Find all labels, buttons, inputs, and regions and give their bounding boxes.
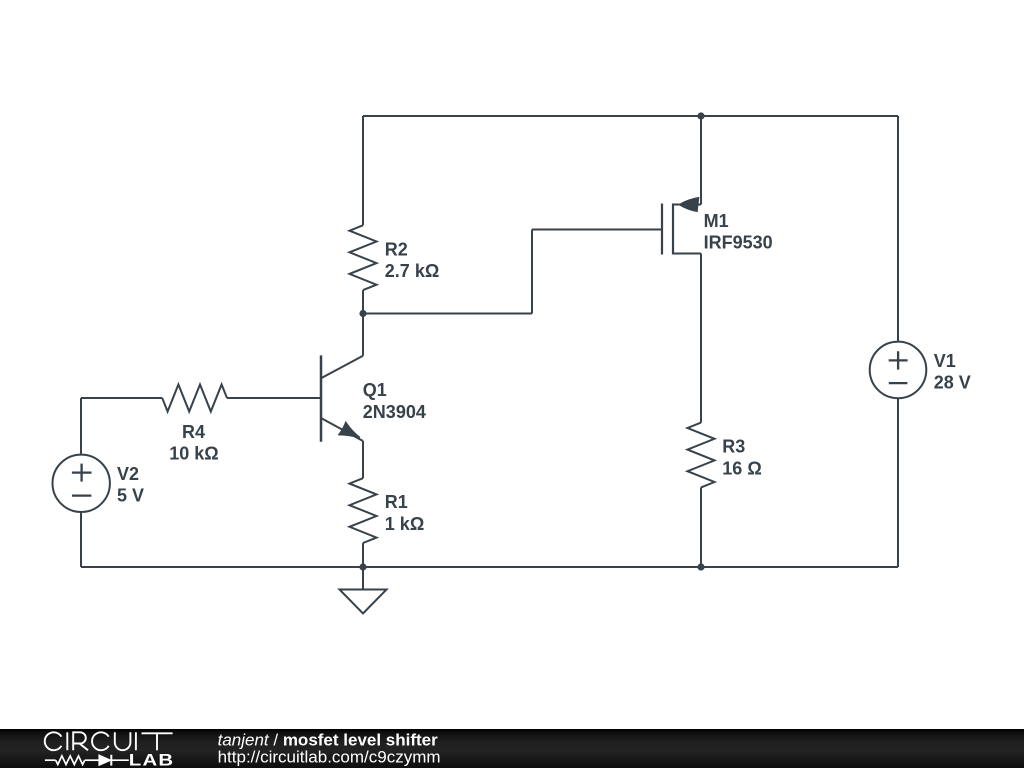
wire R2 bottom lead to collector node — [362, 290, 364, 313]
svg-text:IRF9530: IRF9530 — [704, 233, 773, 253]
wire ground stem — [362, 567, 364, 590]
wire gate net to M1 gate bar — [532, 229, 661, 231]
wire bottom ground rail — [81, 566, 898, 568]
wire gate net horizontal from collector node — [363, 313, 532, 315]
svg-text:R1: R1 — [385, 492, 408, 512]
wire R4 right lead to Q1 base — [227, 397, 320, 399]
resistor R2 zigzag — [350, 225, 377, 290]
node junction dot ground rail at R1 column — [359, 563, 366, 570]
svg-text:2.7 kΩ: 2.7 kΩ — [385, 261, 439, 281]
svg-text:R4: R4 — [182, 422, 205, 442]
svg-text:V1: V1 — [934, 351, 956, 371]
wire left branch top: V2 positive terminal up to R4 row — [80, 398, 82, 455]
wire R2 top lead from top rail — [362, 116, 364, 225]
svg-text:M1: M1 — [704, 211, 729, 231]
wire R1 bottom lead to ground rail — [362, 543, 364, 567]
svg-text:http://circuitlab.com/c9czymm: http://circuitlab.com/c9czymm — [218, 747, 441, 766]
svg-text:LAB: LAB — [129, 750, 175, 768]
voltage source V1 28 V — [870, 342, 927, 399]
wire V2 to R4 left lead — [81, 397, 162, 399]
svg-text:1 kΩ: 1 kΩ — [385, 514, 424, 534]
footer bar background — [0, 729, 1024, 768]
svg-text:2N3904: 2N3904 — [363, 402, 426, 422]
svg-text:R2: R2 — [385, 240, 408, 260]
wire top rail from R2 branch to V1 branch — [363, 115, 898, 117]
transistor Q1 2N3904 NPN — [321, 355, 363, 441]
svg-text:10 kΩ: 10 kΩ — [169, 444, 218, 464]
CircuitLab logo resistor-diode glyph — [45, 755, 129, 766]
mosfet M1 IRF9530 PMOS — [662, 198, 701, 255]
wire Q1 collector vertical — [362, 314, 364, 356]
node junction dot R2 bottom / gate net / collector — [359, 310, 366, 317]
wire M1 drain lead down to R3 — [700, 254, 702, 423]
node junction dot top rail at M1 column — [697, 112, 704, 119]
node junction dot ground rail at R3 column — [697, 563, 704, 570]
wire right branch bottom: V1 negative terminal down to bottom rail — [897, 398, 899, 567]
wire Q1 emitter vertical to R1 — [362, 441, 364, 478]
svg-text:16 Ω: 16 Ω — [722, 459, 761, 479]
wire left branch bottom: V2 negative terminal down to bottom rail — [80, 512, 82, 567]
CircuitLab logo CIRCUIT wordmark — [45, 732, 173, 750]
resistor R3 zigzag — [688, 423, 715, 488]
ground symbol — [340, 590, 387, 614]
wire R3 bottom lead to ground rail — [700, 487, 702, 567]
wire right branch top: top rail down to V1 positive terminal — [897, 116, 899, 342]
svg-text:28 V: 28 V — [934, 373, 971, 393]
svg-text:Q1: Q1 — [363, 380, 387, 400]
voltage source V2 5 V — [52, 455, 109, 512]
svg-text:V2: V2 — [117, 464, 139, 484]
resistor R1 zigzag — [350, 478, 377, 543]
resistor R4 zigzag — [162, 385, 227, 412]
wire M1 source vertical to top rail — [700, 116, 702, 205]
svg-text:5 V: 5 V — [117, 486, 144, 506]
wire gate net vertical riser — [531, 230, 533, 314]
svg-text:R3: R3 — [722, 437, 745, 457]
